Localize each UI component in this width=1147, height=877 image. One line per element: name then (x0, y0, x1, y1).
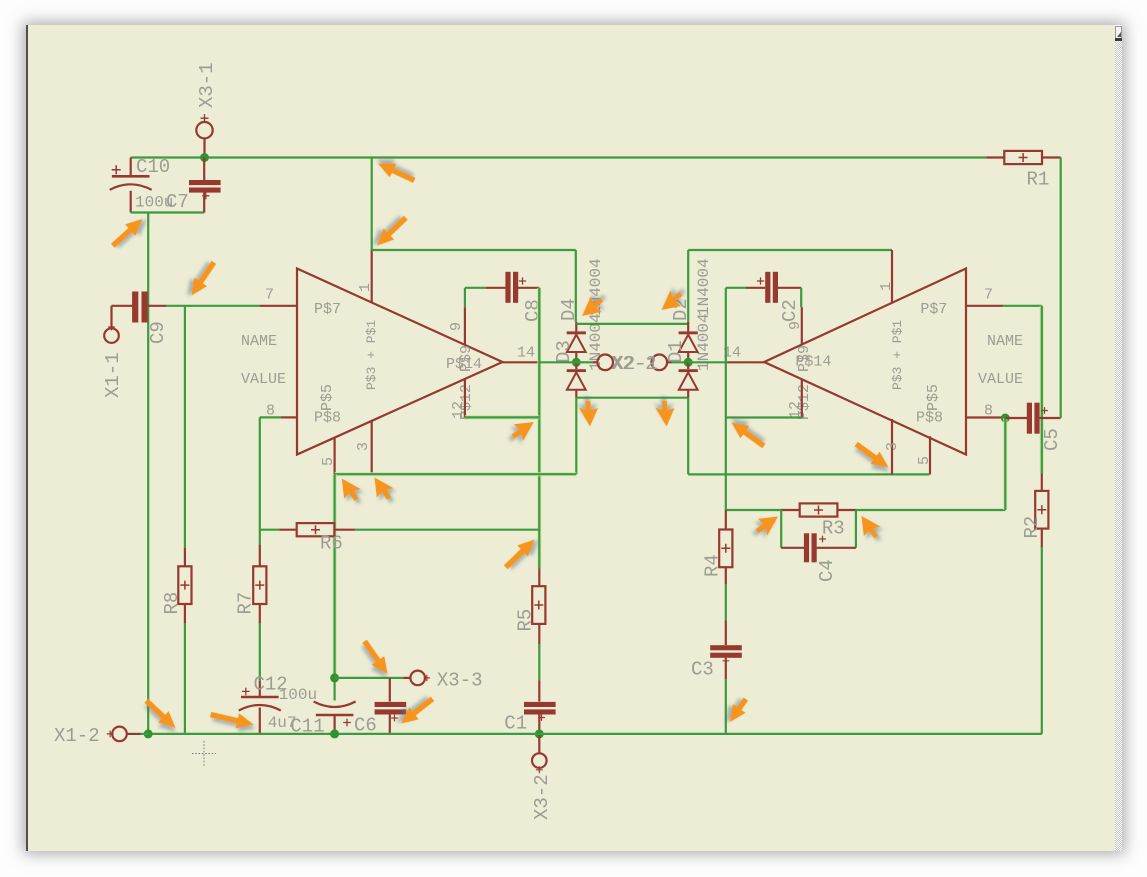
connector pin X2-2 circle (597, 355, 613, 371)
svg-text:VALUE: VALUE (978, 371, 1023, 388)
svg-text:R4: R4 (702, 554, 724, 577)
connector pin X1-2 circle (112, 727, 127, 742)
wire pin7 U2 down to R2 (1040, 306, 1044, 474)
orange pointer at D2 top (660, 289, 684, 310)
wire D4 top to D2 top (576, 323, 688, 325)
R8 top lead (184, 548, 186, 566)
orange pointer at D4 top (580, 295, 604, 316)
R6 right lead (334, 529, 355, 531)
orange arrow at top rail tee (375, 157, 418, 188)
R2 bottom lead (1041, 529, 1043, 547)
R5 top lead (538, 569, 540, 587)
wire to R3 (726, 509, 781, 511)
wire R4 to C3 (725, 584, 727, 621)
resistor R2 box (1035, 491, 1048, 529)
svg-text:P$7: P$7 (920, 301, 947, 318)
wire U2 pin3/pin5 bottom net (688, 473, 929, 475)
svg-text:12: 12 (787, 401, 804, 419)
C8 right lead (518, 287, 540, 289)
U2 pin 5 stub (929, 436, 931, 474)
C2 left lead (746, 287, 765, 289)
C1 bottom lead (538, 715, 540, 734)
C2 right lead (777, 287, 801, 289)
U1 pin 3 stub (371, 421, 373, 474)
diode D1 symbol (679, 369, 698, 372)
wire R7 down to C12 (259, 623, 261, 681)
U2 pin 8 stub (966, 416, 1005, 418)
C6 bottom lead (389, 715, 391, 734)
junction X1-2 / bottom rail (144, 729, 153, 738)
orange pointer at D1 bottom (650, 398, 678, 427)
X3-2 lead (538, 734, 540, 754)
junction C11 / bottom rail (330, 729, 339, 738)
capacitor C5 plates (1027, 403, 1032, 434)
orange arrow at X1-2 junction (141, 695, 181, 733)
orange arrow at C12 lead (209, 707, 255, 732)
wire C8 to pin9 (464, 288, 466, 307)
capacitor C7 plates (189, 180, 221, 185)
diode D3 symbol (567, 369, 586, 372)
svg-text:C3: C3 (691, 659, 714, 681)
diode D2 symbol (679, 331, 698, 334)
wire C4 left (780, 510, 782, 548)
wire R6 to R5 column (355, 529, 539, 531)
wire C2 left (726, 287, 746, 289)
svg-text:1N4004: 1N4004 (695, 258, 713, 316)
junction C11 / X3-3 branch (330, 673, 339, 682)
svg-text:R2: R2 (1021, 516, 1043, 539)
orange arrow at R5 column (500, 534, 539, 573)
wire U1 pin3/pin5 bottom net (335, 472, 577, 476)
svg-text:12: 12 (450, 401, 467, 419)
svg-text:3: 3 (884, 442, 901, 451)
wire down to D4 (575, 250, 577, 322)
capacitor C10 (polarized) (130, 158, 132, 176)
junction pin8 U2 / C5 (1001, 414, 1010, 423)
U1 pin 12 stub (464, 379, 466, 418)
R4 bottom lead (725, 567, 727, 584)
C3 top lead (725, 621, 727, 646)
diode D1 1N4004 (687, 362, 689, 369)
capacitor C12 (polarized) (259, 681, 261, 697)
C3 bottom lead (725, 658, 727, 679)
svg-text:P$9: P$9 (458, 345, 475, 372)
svg-text:R8: R8 (161, 592, 183, 615)
svg-text:P$9: P$9 (796, 345, 813, 372)
C8 left lead (486, 287, 505, 289)
X2-1 pin lead (667, 361, 672, 363)
connector pin X3-1 circle (196, 122, 212, 138)
svg-text:100u: 100u (279, 686, 317, 704)
svg-text:7: 7 (265, 287, 274, 304)
wire C10 bottom to C7 bottom (131, 211, 205, 213)
orange pointer at R3 right corner (862, 516, 881, 538)
svg-text:8: 8 (984, 403, 993, 420)
svg-text:P$5: P$5 (319, 384, 336, 411)
R1 right lead (1042, 156, 1061, 158)
svg-text:R7: R7 (235, 592, 257, 615)
R8 bottom lead (184, 604, 186, 623)
svg-text:C5: C5 (1041, 428, 1063, 451)
wire bottom rail net (148, 733, 1042, 735)
resistor R8 box (178, 566, 191, 604)
resistor R4 box (719, 530, 732, 568)
wire pin14 U1 to diode node (539, 361, 579, 363)
wire to C11 (334, 678, 336, 701)
connector pin X1-1 circle (104, 328, 119, 343)
wire pin12 U2 to C2 column (726, 416, 802, 418)
U1 pin 7 stub (260, 305, 297, 307)
connector pin X2-1 circle (652, 355, 668, 371)
orange arrow at pin12 U2 corner (727, 416, 768, 452)
svg-text:P$8: P$8 (314, 410, 341, 427)
U1 pin 14 stub (503, 361, 540, 363)
svg-text:3: 3 (355, 442, 372, 451)
wire pin1 U1 up to top rail (371, 158, 373, 251)
U2 pin 12 stub (801, 379, 803, 418)
X2-2 pin lead (593, 361, 598, 363)
op-amp U1 (left power amp) triangle (297, 269, 503, 455)
capacitor C7 (203, 158, 205, 181)
orange pointer at pin5 U1 net (342, 479, 361, 501)
wire C8 right down (537, 288, 541, 418)
svg-text:NAME: NAME (987, 333, 1023, 350)
svg-text:X3-2: X3-2 (531, 774, 553, 820)
X3-3 pin lead (403, 677, 410, 679)
wire C9 to pin 7 of U1 (166, 305, 260, 307)
U2 pin 3 stub (891, 419, 893, 474)
svg-text:5: 5 (320, 457, 337, 466)
U2 pin 9 stub (801, 307, 803, 345)
U1 pin 9 stub (464, 307, 466, 345)
svg-text:X3-3: X3-3 (437, 670, 483, 692)
svg-text:P$8: P$8 (916, 410, 943, 427)
svg-text:D4: D4 (558, 298, 580, 321)
R6 left lead (279, 529, 297, 531)
wire rail to D2 (687, 250, 689, 322)
C5 right lead (1040, 417, 1061, 419)
R3 right lead (837, 509, 856, 511)
wire D2 rail to pin1 U2 (688, 249, 892, 251)
junction D1/D2 node (684, 358, 693, 367)
svg-text:VALUE: VALUE (241, 371, 286, 388)
svg-text:P$7: P$7 (314, 301, 341, 318)
connector pin X3-3 circle (410, 671, 425, 686)
U2 pin 1 stub (891, 250, 893, 303)
U2 pin 7 stub (966, 305, 1003, 307)
wire to X3-3 lead (390, 677, 403, 679)
diode D4 symbol (567, 331, 586, 334)
wire R5 to C1 (538, 644, 540, 681)
orange arrow at C3 bottom (724, 695, 753, 727)
wire pin7 U2 (1003, 305, 1042, 307)
resistor R1 box (1004, 151, 1042, 164)
resistor R6 box (297, 523, 335, 536)
svg-text:D3: D3 (553, 340, 575, 363)
R4 top lead (725, 510, 727, 530)
wire down to R8 (184, 306, 186, 548)
wire R3 to pin8 U2 column (856, 509, 1005, 511)
C1 top lead (538, 681, 540, 702)
svg-text:9: 9 (448, 322, 465, 331)
capacitor C6 plates (375, 702, 407, 707)
wire pin12 U1 to C8 column (465, 415, 539, 419)
svg-text:C10: C10 (136, 156, 170, 178)
orange arrow at C6 bottom (396, 693, 437, 730)
svg-text:1: 1 (878, 282, 895, 291)
orange arrow at X3-3 wire (358, 637, 393, 678)
capacitor C3 plates (710, 645, 742, 650)
diode D3 1N4004 (575, 362, 577, 369)
svg-text:1: 1 (357, 283, 374, 292)
connector pin X3-2 circle (532, 753, 547, 768)
wire top rail net (131, 156, 987, 158)
svg-text:14: 14 (517, 345, 535, 362)
svg-text:C1: C1 (504, 713, 527, 735)
U1 pin 8 stub (281, 416, 297, 418)
R7 top lead (259, 545, 261, 567)
wire to R6 (260, 529, 279, 531)
capacitor C12 plates (241, 696, 279, 699)
X1-2 pin lead (127, 733, 141, 735)
wire X1-2 to rail (141, 733, 149, 735)
C6 top lead (389, 678, 391, 702)
R5 bottom lead (538, 624, 540, 644)
C4 right lead (817, 547, 856, 549)
junction C1 / X3-2 / bottom rail (535, 729, 544, 738)
wire down to R6/R7 (259, 417, 261, 544)
svg-text:C2: C2 (779, 299, 801, 322)
wire pin8 U2 down (1003, 418, 1007, 510)
wire C8 left (465, 287, 486, 289)
R2 top lead (1041, 474, 1043, 491)
wire R8 down to bottom rail (184, 623, 186, 734)
wire down to R5 (537, 417, 541, 568)
wire D1 down to bottom net (687, 398, 689, 475)
svg-text:5: 5 (916, 456, 933, 465)
junction D3/D4 node (572, 358, 581, 367)
C5 left lead (1005, 417, 1027, 419)
orange pointer at D3 bottom (574, 398, 602, 427)
orange arrow at pin7 U1 (185, 258, 220, 300)
mouse crosshair cursor (192, 741, 216, 766)
wire R2 down to bottom rail (1041, 547, 1043, 734)
capacitor C11 plates (316, 714, 354, 717)
svg-text:R1: R1 (1027, 169, 1050, 191)
junction X3-1 / top rail (200, 153, 209, 162)
orange arrow at C10 corner (108, 213, 148, 251)
svg-text:R6: R6 (320, 533, 343, 555)
wire pin5 column down to C11 (333, 474, 337, 678)
svg-text:R5: R5 (515, 609, 537, 632)
wire C2 left column down (725, 288, 727, 510)
wire pin14 U2 to diode node (688, 361, 727, 363)
capacitor C2 plates (765, 272, 770, 303)
svg-text:X1-1: X1-1 (102, 352, 124, 398)
wire to X3-3 (335, 677, 390, 679)
R7 bottom lead (259, 604, 261, 623)
svg-text:X2-1: X2-1 (613, 353, 659, 375)
svg-text:C4: C4 (816, 559, 838, 582)
wire D3 down to bottom net (575, 398, 577, 475)
capacitor C9 plates (132, 292, 138, 323)
wire pin8 U1 (260, 416, 281, 418)
R3 left lead (781, 509, 800, 511)
wire to X2-2 (580, 361, 594, 363)
wire R1 down to C5 (1060, 158, 1062, 419)
svg-text:C9: C9 (147, 321, 169, 344)
capacitor C8 plates (505, 272, 510, 303)
U2 pin 14 stub (728, 361, 765, 363)
svg-text:C7: C7 (166, 191, 189, 213)
orange pointer at pin3 U1 net (375, 478, 394, 500)
resistor R7 box (253, 566, 266, 604)
R1 left lead (986, 156, 1004, 158)
resistor R3 box (800, 503, 838, 516)
orange arrow at pin1 U1 corner (372, 212, 411, 251)
wire C3 to bottom rail (725, 679, 727, 734)
connector pin X1-1 (110, 306, 112, 329)
op-amp U2 (right power amp) triangle (764, 269, 966, 455)
wire D3 bottom to D1 bottom (576, 397, 688, 399)
orange pointer at C8 column tee (512, 422, 534, 441)
C4 left lead (781, 547, 804, 549)
capacitor C10 plates (112, 175, 150, 178)
orange arrow at pin3 U2 (852, 438, 893, 474)
svg-text:X3-1: X3-1 (196, 62, 218, 108)
wire C2 to pin9 U2 (800, 288, 802, 307)
svg-text:7: 7 (984, 287, 993, 304)
diode D4 1N4004 (575, 322, 577, 332)
capacitor C4 plates (804, 533, 809, 562)
wire left column down to X1-2 (147, 213, 149, 734)
svg-text:X1-2: X1-2 (54, 725, 100, 747)
wire X2-1 to diode node (672, 361, 688, 363)
wire net pin1 U1 to D4 (372, 249, 576, 251)
svg-text:P$3 + P$1: P$3 + P$1 (364, 320, 379, 390)
capacitor C1 plates (524, 702, 556, 707)
svg-text:P$5: P$5 (925, 384, 942, 411)
svg-text:P$3 + P$1: P$3 + P$1 (890, 320, 905, 390)
C10 plus mark (112, 165, 121, 174)
resistor R5 box (532, 586, 545, 624)
C9 right lead (148, 305, 166, 307)
C9 left lead (112, 305, 134, 307)
svg-text:NAME: NAME (241, 333, 277, 350)
svg-text:D1: D1 (665, 340, 687, 363)
svg-text:R3: R3 (822, 518, 845, 540)
diode D2 1N4004 (687, 322, 689, 332)
U1 pin 5 stub (334, 438, 336, 475)
wire C4 right (855, 510, 857, 548)
U1 pin 1 stub (371, 250, 373, 303)
orange pointer at C4 left corner (756, 517, 778, 536)
